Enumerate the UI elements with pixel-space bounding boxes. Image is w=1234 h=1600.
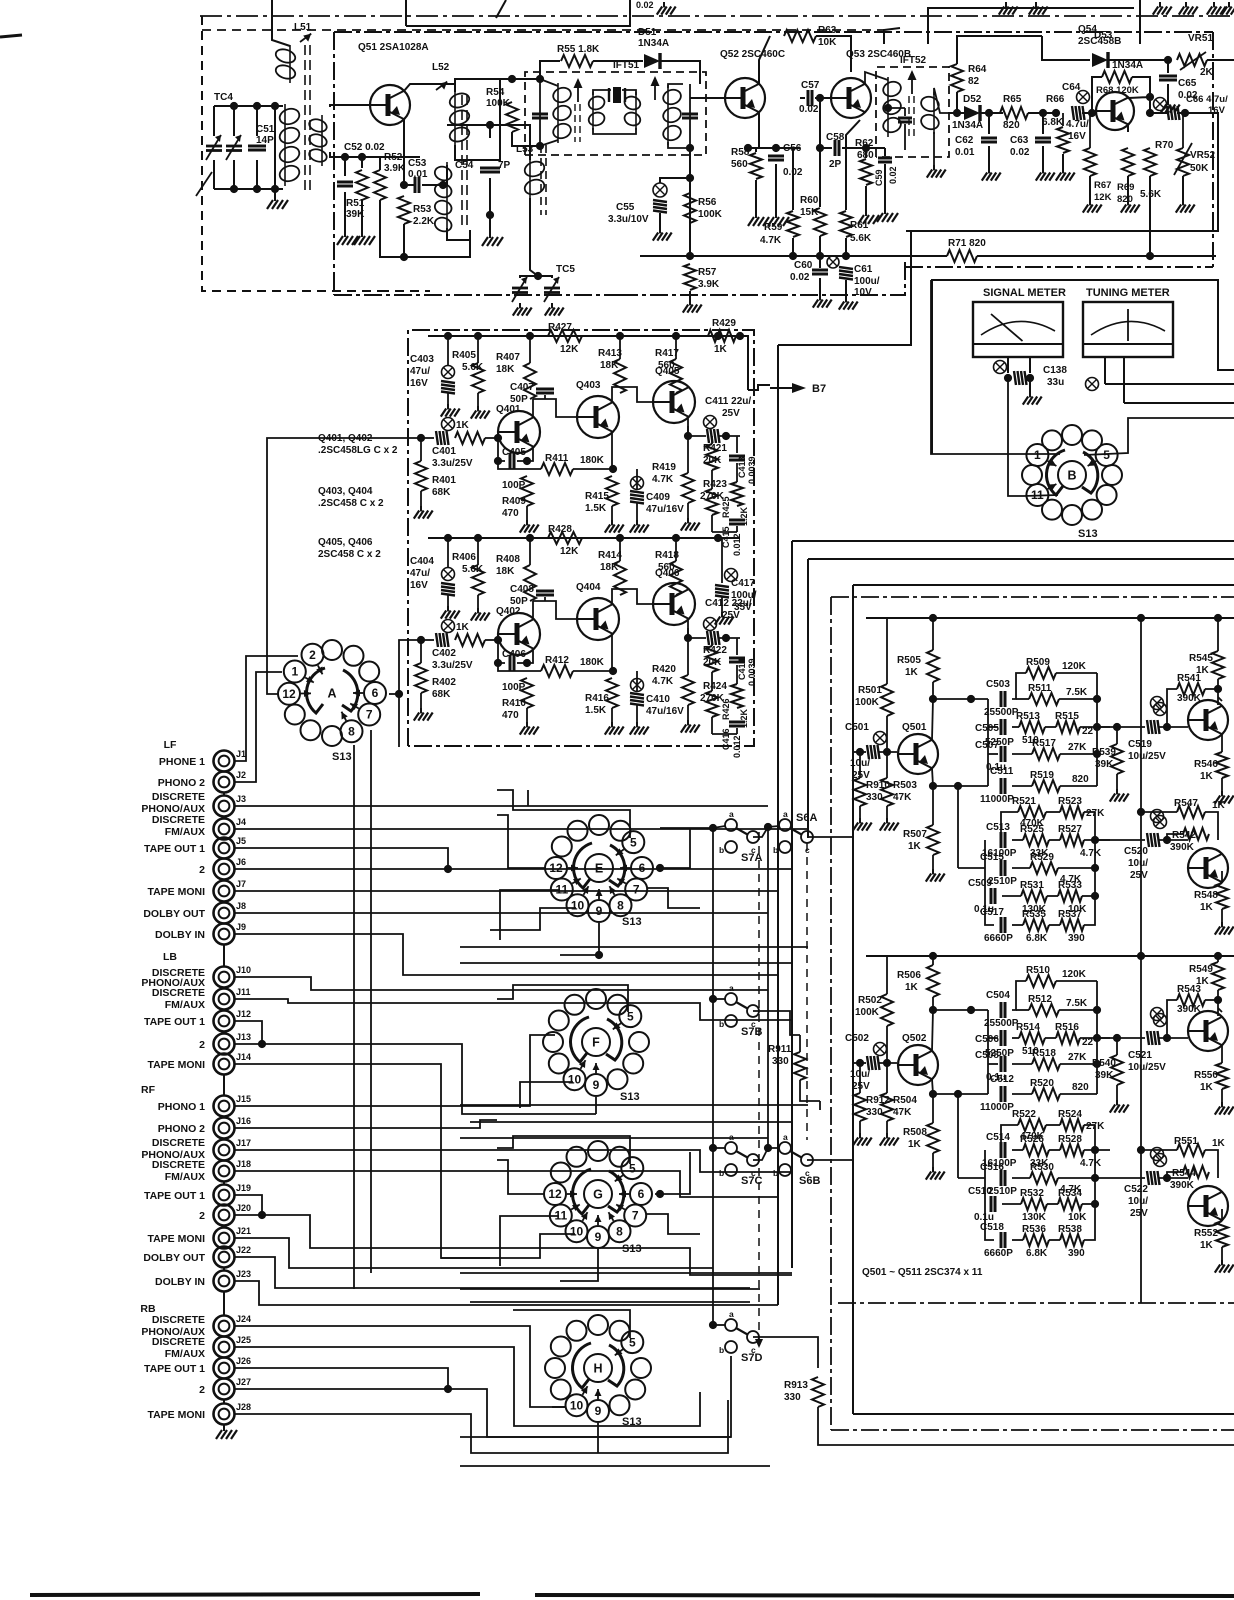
- wire R501 top: [866, 618, 887, 684]
- wire R417 top: [675, 336, 677, 359]
- label R54 value: [486, 98, 511, 109]
- ground TC5b: [545, 303, 564, 316]
- label C401 value: [432, 458, 473, 469]
- svg-text:R533: R533: [1058, 880, 1082, 891]
- svg-text:C55: C55: [616, 202, 635, 213]
- svg-text:47u/: 47u/: [410, 366, 430, 377]
- svg-text:S6B: S6B: [799, 1175, 820, 1187]
- junction TC4 a: [230, 102, 238, 110]
- wire IFT51 down: [689, 148, 691, 256]
- wire emit to ladder2: [933, 1093, 988, 1095]
- wire E feed top: [527, 790, 529, 806]
- label R546 value: [1200, 771, 1214, 782]
- svg-text:2K: 2K: [1200, 67, 1214, 78]
- wire rowE b: [1049, 1239, 1060, 1241]
- resistor R51: [356, 170, 368, 200]
- switch S7A: [719, 809, 762, 864]
- svg-text:R552: R552: [1194, 1228, 1218, 1239]
- label C405: [502, 447, 526, 458]
- svg-text:1K: 1K: [908, 1139, 922, 1150]
- svg-text:a: a: [783, 1132, 788, 1142]
- svg-text:PHONE 1: PHONE 1: [159, 756, 205, 768]
- svg-text:D53: D53: [1094, 30, 1113, 41]
- wire antenna down: [272, 0, 290, 46]
- capacitor C409 electrolytic: [630, 491, 644, 504]
- svg-text:R416: R416: [585, 693, 609, 704]
- label J26: [236, 1356, 251, 1366]
- wire jack chain 829: [223, 838, 225, 840]
- label R539 value: [1095, 759, 1114, 770]
- label C514 value: [982, 1158, 1017, 1169]
- polarity Q504 b: [1151, 810, 1164, 823]
- wire qo2 trunk: [1140, 618, 1142, 812]
- transistor Q505: [1188, 1011, 1228, 1051]
- ground R410: [520, 722, 539, 735]
- switch S7B: [719, 983, 762, 1038]
- label R512 value: [1066, 998, 1088, 1009]
- label R411 value: [580, 455, 605, 466]
- svg-text:L52: L52: [432, 62, 450, 73]
- wire C408 lead: [544, 597, 546, 601]
- svg-text:2: 2: [309, 648, 316, 662]
- label R540: [1092, 1058, 1116, 1069]
- wire R544 left: [1167, 1172, 1183, 1178]
- wire R408 top: [529, 538, 531, 565]
- capacitor C406: [510, 655, 514, 671]
- wire J3 route: [234, 805, 768, 807]
- wire R61 up: [846, 120, 860, 210]
- label C522 v1: [1128, 1196, 1148, 1207]
- label R59 value: [760, 235, 782, 246]
- svg-text:C505: C505: [975, 723, 999, 734]
- label R515: [1055, 711, 1079, 722]
- label Q53: [846, 49, 911, 60]
- label R912: [866, 1095, 890, 1106]
- junction R410 top: [523, 659, 531, 667]
- label R407: [496, 352, 520, 363]
- label R412 value: [580, 657, 605, 668]
- svg-text:DISCRETE: DISCRETE: [152, 987, 205, 999]
- capacitor IFT51 tune: [532, 114, 548, 118]
- wire rowD a: [1002, 895, 1021, 897]
- svg-text:R548: R548: [1194, 890, 1218, 901]
- wire L52 lower bottom: [447, 228, 470, 240]
- label J5: [236, 836, 246, 846]
- resistor R550: [1216, 1063, 1228, 1089]
- tank left: [213, 106, 215, 136]
- svg-text:R547: R547: [1174, 798, 1198, 809]
- wire row4 out: [1060, 785, 1097, 787]
- label R522: [1012, 1109, 1036, 1120]
- resistor R60: [814, 208, 826, 236]
- wire R540 top: [1116, 1038, 1118, 1055]
- label C516 value: [988, 1186, 1017, 1197]
- ground C52: [337, 231, 358, 245]
- svg-text:J19: J19: [236, 1183, 251, 1193]
- svg-text:R532: R532: [1020, 1188, 1044, 1199]
- capacitor C56: [768, 156, 784, 160]
- label jack 2 y1219: [199, 1210, 205, 1222]
- ground R405 5.6K: [471, 406, 490, 419]
- wire R420 gnd: [687, 705, 689, 720]
- core arrow IFT51: [574, 78, 583, 102]
- capacitor C417 electrolytic: [715, 585, 729, 598]
- label C407 value: [510, 394, 528, 405]
- svg-text:25500P: 25500P: [984, 707, 1019, 718]
- label R421: [703, 443, 727, 454]
- coil IFT52 sec: [919, 92, 940, 134]
- wire R58 gnd: [755, 180, 757, 212]
- resistor VR52: [1177, 148, 1189, 176]
- label R530: [1030, 1162, 1054, 1173]
- wire Q52 out right: [748, 147, 800, 149]
- svg-text:50K: 50K: [1190, 163, 1209, 174]
- wire Q404 emitter: [611, 633, 613, 671]
- label jack DOLBY IN y938: [155, 929, 205, 941]
- svg-text:R415: R415: [585, 491, 609, 502]
- svg-text:R523: R523: [1058, 796, 1082, 807]
- svg-text:R55 1.8K: R55 1.8K: [557, 44, 600, 55]
- svg-text:8: 8: [617, 898, 624, 912]
- wire tm b: [1123, 357, 1125, 403]
- antenna dashed box: [202, 16, 380, 291]
- tank wire vc2: [256, 106, 258, 136]
- label R401: [432, 475, 456, 486]
- label R424: [703, 681, 727, 692]
- antenna dashed box bottom2: [380, 290, 430, 292]
- label R421 value: [703, 455, 722, 466]
- svg-text:TUNING METER: TUNING METER: [1086, 287, 1170, 299]
- label R506: [897, 970, 921, 981]
- svg-text:390: 390: [1068, 1248, 1085, 1259]
- svg-text:C410: C410: [646, 694, 670, 705]
- tank top rail: [214, 105, 283, 107]
- wire row2 out: [1080, 726, 1110, 728]
- svg-text:10u/25V: 10u/25V: [1128, 1062, 1166, 1073]
- jack J27: [214, 1379, 235, 1400]
- label R544 value: [1170, 1180, 1195, 1191]
- wire C406 out: [517, 662, 527, 664]
- tank left2: [213, 160, 215, 189]
- svg-text:27K: 27K: [1086, 808, 1105, 819]
- wire C62 gnd: [988, 146, 990, 168]
- core L53 dash a: [540, 145, 542, 215]
- label jack DISCRETE y1323: [152, 1314, 205, 1326]
- label 0.02 top: [636, 0, 654, 10]
- label R550 value: [1200, 1082, 1214, 1093]
- wire R406 5.6K gnd: [477, 595, 479, 608]
- wire row4 out: [1060, 1093, 1097, 1095]
- wire R542 left: [1167, 834, 1183, 840]
- resistor R534: [1058, 1198, 1082, 1210]
- svg-text:18K: 18K: [496, 566, 515, 577]
- label R425 rot: [721, 496, 731, 518]
- junction R409 top: [523, 457, 531, 465]
- label R541 value: [1177, 693, 1202, 704]
- switch S7D: [719, 1309, 762, 1364]
- label R528 value: [1080, 1158, 1102, 1169]
- svg-text:C401: C401: [432, 446, 456, 457]
- svg-text:12: 12: [548, 1187, 562, 1201]
- svg-text:Q403, Q404: Q403, Q404: [318, 486, 373, 497]
- wire C409 top: [636, 469, 638, 489]
- ground R409: [520, 520, 539, 533]
- wire J13 route: [234, 1044, 596, 1114]
- svg-text:50P: 50P: [510, 596, 528, 607]
- wire E6 right: [656, 828, 690, 868]
- label jack TAPE MONI y1242: [147, 1233, 205, 1245]
- wire G bundle b: [460, 1288, 760, 1290]
- ground R503: [880, 818, 899, 831]
- label R404 1K: [456, 622, 470, 633]
- junction rail c U: [1214, 614, 1222, 622]
- label J11: [236, 987, 251, 997]
- wire J19 route: [234, 1195, 262, 1215]
- wire R405 5.6K top: [477, 336, 479, 363]
- resistor R508: [927, 1123, 939, 1153]
- wire R911-C502: [819, 1101, 821, 1110]
- label R56 value: [698, 209, 723, 220]
- resistor R519: [1032, 780, 1060, 792]
- capacitor C504: [1001, 1002, 1005, 1018]
- svg-text:TC4: TC4: [214, 92, 233, 103]
- dashed gang S7A-S7D: [758, 832, 760, 1342]
- label R69 value: [1117, 194, 1133, 205]
- coil L52 upper: [448, 89, 471, 146]
- wire D52 out: [980, 112, 1003, 114]
- wire Q501 coll: [932, 699, 933, 740]
- junction C522 out: [1163, 1174, 1171, 1182]
- label R58 value: [731, 159, 748, 170]
- label R429 value: [714, 344, 728, 355]
- label J24: [236, 1314, 251, 1324]
- wire tm right: [1105, 383, 1234, 385]
- label R418 value: [658, 562, 675, 573]
- resistor R545: [1212, 651, 1224, 679]
- wire C59 down: [884, 164, 886, 208]
- label C416 rot: [721, 728, 731, 750]
- resistor R546: [1216, 752, 1228, 778]
- junction C52: [341, 153, 349, 161]
- label R544: [1172, 1168, 1196, 1179]
- label R527: [1058, 824, 1082, 835]
- junction C66 out: [1181, 109, 1189, 117]
- wire R501 bot: [886, 716, 888, 752]
- junction R51: [358, 153, 366, 161]
- label Q401: [496, 404, 521, 415]
- wire Q502 coll: [932, 1010, 933, 1051]
- label C61: [854, 264, 873, 275]
- svg-text:DOLBY OUT: DOLBY OUT: [143, 1252, 205, 1264]
- label jack FM/AUX y1180: [165, 1171, 205, 1183]
- wire J18 route: [234, 1171, 778, 1197]
- junction R59 rail: [789, 252, 797, 260]
- label R910 value: [866, 792, 883, 803]
- wire S6A feed: [753, 826, 779, 837]
- label IFT51: [613, 60, 640, 71]
- label Q405: [655, 366, 680, 377]
- label jack TAPE MONI y1068: [147, 1059, 205, 1071]
- ground R548: [1215, 922, 1234, 935]
- junction rowB bus: [1091, 836, 1099, 844]
- label C64 value2: [1068, 131, 1086, 142]
- label R512: [1028, 994, 1052, 1005]
- jack J21: [214, 1228, 235, 1249]
- capacitor C412 electrolytic: [707, 631, 720, 645]
- wire jack chain 1281: [223, 1292, 225, 1316]
- junction rail b U: [1137, 614, 1145, 622]
- junction C62: [985, 109, 993, 117]
- capacitor C513: [1001, 832, 1005, 848]
- wire C66 left: [1150, 112, 1167, 114]
- junction Q54 base: [1088, 109, 1096, 117]
- svg-text:C504: C504: [986, 990, 1010, 1001]
- polarity C61: [827, 256, 839, 268]
- label J27: [236, 1377, 251, 1387]
- arrow gang S7: [755, 1339, 763, 1348]
- junction IFT51 in bottom: [536, 142, 544, 150]
- svg-text:3.3u/25V: 3.3u/25V: [432, 660, 473, 671]
- jack J4: [214, 819, 235, 840]
- junction S7B a: [709, 995, 717, 1003]
- wire rowD b: [1047, 895, 1058, 897]
- capacitor C55 electrolytic: [653, 200, 667, 213]
- wire rowD b: [1047, 1203, 1058, 1205]
- resistor R54: [506, 102, 518, 132]
- svg-text:DISCRETE: DISCRETE: [152, 1159, 205, 1171]
- junction qo2 node: [1137, 808, 1145, 816]
- wire jack chain 891: [223, 902, 225, 903]
- wire R53 bottom: [403, 224, 405, 257]
- svg-text:100K: 100K: [855, 697, 880, 708]
- capacitor C407: [536, 389, 554, 393]
- wire J16 route: [234, 1120, 497, 1128]
- rotary switch S13-F: [543, 989, 649, 1096]
- capacitor C66 electrolytic: [1167, 106, 1180, 120]
- jack J20: [214, 1205, 235, 1226]
- label jack TAPE OUT 1 y1025: [144, 1016, 205, 1028]
- wire J1 to A2: [234, 656, 298, 761]
- svg-text:R409: R409: [502, 496, 526, 507]
- wire C501 in: [853, 751, 866, 753]
- resistor R544: [1183, 1166, 1209, 1178]
- wire rowE frame: [1084, 896, 1095, 925]
- core arrow IFT52: [908, 70, 917, 94]
- crystal filter: [609, 87, 625, 103]
- junction Q401 base: [494, 434, 502, 442]
- svg-text:TC5: TC5: [556, 264, 575, 275]
- wire E7 wire: [648, 888, 700, 908]
- capacitor C509: [991, 888, 995, 904]
- label R416: [585, 693, 609, 704]
- jack J9: [214, 924, 235, 945]
- svg-text:R422: R422: [703, 645, 727, 656]
- wire VR52 top: [1182, 113, 1184, 148]
- wire ladder left row3: [988, 753, 998, 755]
- junction S7C a: [709, 1144, 717, 1152]
- svg-text:Q52 2SC460C: Q52 2SC460C: [720, 49, 785, 60]
- label C58 value: [829, 159, 842, 170]
- junction C54 top: [486, 121, 494, 129]
- label jack DOLBY IN y1285: [155, 1276, 205, 1288]
- wire C61 gnd: [845, 280, 847, 297]
- junction rowD bus: [1091, 892, 1099, 900]
- wire Q403 emitter: [611, 431, 613, 469]
- label R534: [1058, 1188, 1082, 1199]
- label R511 value: [1066, 687, 1088, 698]
- svg-text:C51: C51: [256, 124, 275, 135]
- label C509: [968, 878, 992, 889]
- resistor R512: [1029, 1004, 1059, 1016]
- svg-text:10V: 10V: [854, 287, 872, 298]
- wire C60 gnd: [819, 278, 821, 295]
- svg-text:C517: C517: [980, 907, 1004, 918]
- svg-text:b: b: [719, 845, 724, 855]
- capacitor C519 electrolytic: [1147, 720, 1160, 734]
- svg-text:R69: R69: [1117, 182, 1134, 193]
- label C417 v2: [734, 602, 752, 613]
- junction rowD bus: [1091, 1200, 1099, 1208]
- arrow L52 tuning: [436, 82, 447, 90]
- resistor R59: [787, 211, 799, 237]
- top partial box left: [405, 0, 407, 26]
- svg-text:S13: S13: [332, 751, 352, 763]
- wire C413 top: [736, 436, 738, 453]
- label C501 v2: [852, 770, 870, 781]
- wire rowA frame: [1001, 1125, 1018, 1150]
- label Q405 Q406 a: [318, 537, 373, 548]
- wire Q404 collector: [612, 589, 653, 604]
- svg-text:100K: 100K: [855, 1007, 880, 1018]
- label jack PHONO 2 y786: [158, 777, 205, 789]
- junction out node LF: [722, 432, 730, 440]
- svg-text:R521: R521: [1012, 796, 1036, 807]
- wire r511 wires: [1016, 1009, 1029, 1011]
- wire C401 lead: [421, 437, 434, 439]
- jack J12: [214, 1011, 235, 1032]
- wire jack chain 1106: [223, 1117, 225, 1118]
- wire C59 wire: [866, 147, 885, 149]
- resistor R417: [670, 359, 682, 393]
- label R518 value: [1068, 1052, 1087, 1063]
- wire C58 right: [842, 147, 866, 149]
- label R507 value: [908, 841, 922, 852]
- ground TC5a: [513, 303, 532, 316]
- resistor R547: [1177, 806, 1205, 818]
- svg-text:5: 5: [1103, 448, 1110, 462]
- svg-text:J17: J17: [236, 1138, 251, 1148]
- svg-text:R530: R530: [1030, 1162, 1054, 1173]
- ground top-right 5: [1207, 2, 1226, 15]
- wire R407 top: [529, 336, 531, 363]
- svg-text:68K: 68K: [432, 487, 451, 498]
- wire ladder2 in: [958, 867, 985, 869]
- tank wire vc1: [233, 106, 235, 136]
- svg-text:H: H: [593, 1362, 602, 1376]
- label R520: [1030, 1078, 1054, 1089]
- svg-text:B7: B7: [812, 383, 826, 395]
- label jack PHONO 1 y1110: [158, 1101, 205, 1113]
- resistor R911: [794, 1052, 806, 1080]
- svg-text:20K: 20K: [703, 455, 722, 466]
- svg-text:TAPE MONI: TAPE MONI: [147, 1409, 205, 1421]
- wire R52: [379, 157, 381, 170]
- label C61 value: [854, 276, 880, 287]
- core L51 dash a: [304, 45, 306, 190]
- rotary switch S13-A: [278, 640, 386, 746]
- wire R539 top: [1116, 727, 1118, 744]
- capacitor C502 electrolytic: [867, 1056, 880, 1070]
